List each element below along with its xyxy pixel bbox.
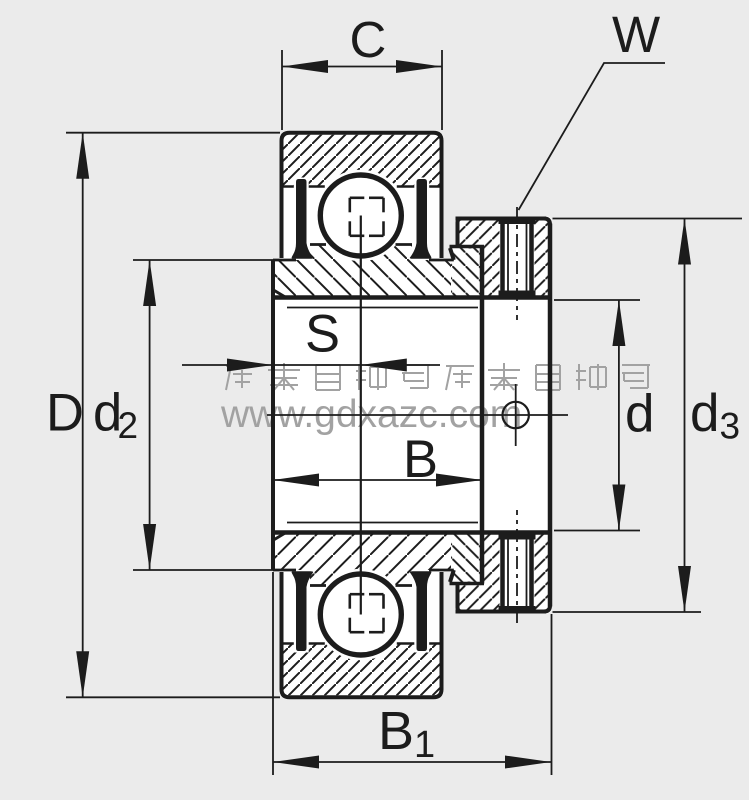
svg-text:3: 3 <box>720 406 741 447</box>
svg-text:2: 2 <box>118 405 139 446</box>
svg-text:B: B <box>403 430 438 489</box>
svg-text:d: d <box>690 384 719 443</box>
svg-text:D: D <box>46 383 84 442</box>
svg-text:d: d <box>625 385 654 444</box>
svg-text:1: 1 <box>414 724 435 766</box>
svg-text:C: C <box>350 11 387 68</box>
svg-text:B: B <box>378 701 414 761</box>
svg-text:S: S <box>305 305 340 364</box>
svg-text:W: W <box>612 6 660 63</box>
